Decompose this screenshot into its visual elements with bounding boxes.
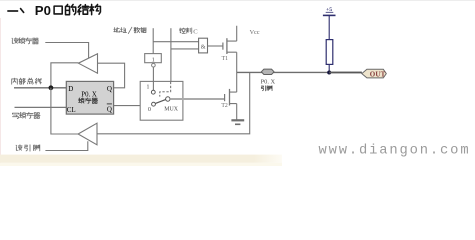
wire inverter output to mux contact 1 — [152, 67, 154, 91]
label 读锁存器 — [12, 38, 39, 44]
wire buffer output to internal bus — [51, 63, 79, 88]
buffer read-latch — [78, 54, 97, 73]
label 读引脚 — [16, 145, 40, 151]
power +5 — [323, 7, 336, 16]
mux box MUX — [140, 81, 183, 120]
svg-text:P0. X: P0. X — [261, 78, 276, 85]
wire control C vertical — [170, 28, 172, 81]
svg-text:D: D — [68, 85, 73, 93]
node bus junction — [49, 85, 54, 90]
transistor T2 — [221, 72, 236, 120]
svg-text:Vcc: Vcc — [250, 29, 260, 36]
mux dashed control path — [160, 82, 171, 97]
svg-text:T2: T2 — [221, 103, 228, 109]
svg-text:OUT: OUT — [370, 70, 386, 78]
wire mux output to T2 gate — [170, 98, 224, 100]
wire internal bus — [14, 87, 67, 89]
wire latch Qbar to MUX — [114, 105, 152, 107]
node resistor junction — [327, 71, 331, 75]
wire resistor to node — [328, 64, 330, 72]
svg-text:C: C — [193, 28, 198, 35]
inverter U2 — [145, 54, 162, 63]
wire buffer input from latch Q — [98, 63, 125, 88]
port OUT — [362, 69, 387, 78]
svg-text:T1: T1 — [222, 56, 229, 62]
wire read-latch control — [45, 43, 88, 59]
svg-text:1: 1 — [147, 84, 150, 90]
svg-text:1: 1 — [152, 56, 155, 63]
mux contact 1 — [151, 90, 155, 94]
svg-text:P0. X: P0. X — [81, 91, 97, 98]
bottom highlight strip — [0, 155, 282, 163]
svg-text:MUX: MUX — [164, 107, 178, 113]
latch U1 P0.X 锁存器 — [66, 81, 113, 114]
inverter bubble — [152, 63, 156, 67]
mux pivot contact — [166, 97, 170, 101]
label 控制C — [179, 28, 191, 34]
svg-text:www.diangon.com: www.diangon.com — [319, 143, 471, 159]
svg-text:CL: CL — [67, 106, 76, 114]
wire address/data vertical — [152, 28, 154, 53]
svg-text:&: & — [201, 43, 206, 50]
resistor R1 — [326, 40, 333, 65]
wire node to OUT port — [329, 72, 362, 74]
connector P0.X pin oval — [261, 69, 274, 74]
label 内部总线 — [12, 78, 42, 84]
svg-text:0: 0 — [148, 107, 151, 113]
and gate U3 — [199, 38, 208, 53]
wire write-latch to CL — [15, 106, 67, 108]
mux switch arm — [155, 100, 165, 104]
wire address/data to AND input — [153, 41, 198, 43]
wire read-pin buffer input from pin — [97, 72, 250, 133]
label 写锁存器 — [12, 112, 40, 118]
svg-text:Q: Q — [107, 85, 112, 93]
svg-text:Q: Q — [107, 105, 112, 113]
wire control C to AND input — [171, 48, 199, 50]
mux contact 0 — [152, 102, 156, 106]
ground — [231, 120, 244, 124]
label 地址/数据 — [114, 27, 147, 33]
wire pin node to OUT — [237, 71, 362, 73]
wire AND output to T1 gate — [208, 45, 223, 47]
buffer read-pin — [78, 123, 97, 145]
wire +5 to resistor — [328, 15, 330, 39]
wire read-pin control — [45, 141, 87, 150]
wire bus to read-pin buffer — [51, 88, 78, 134]
transistor T1 — [222, 26, 237, 73]
svg-text:P0: P0 — [35, 3, 51, 18]
title 一、P0口的结构 — [7, 3, 100, 18]
